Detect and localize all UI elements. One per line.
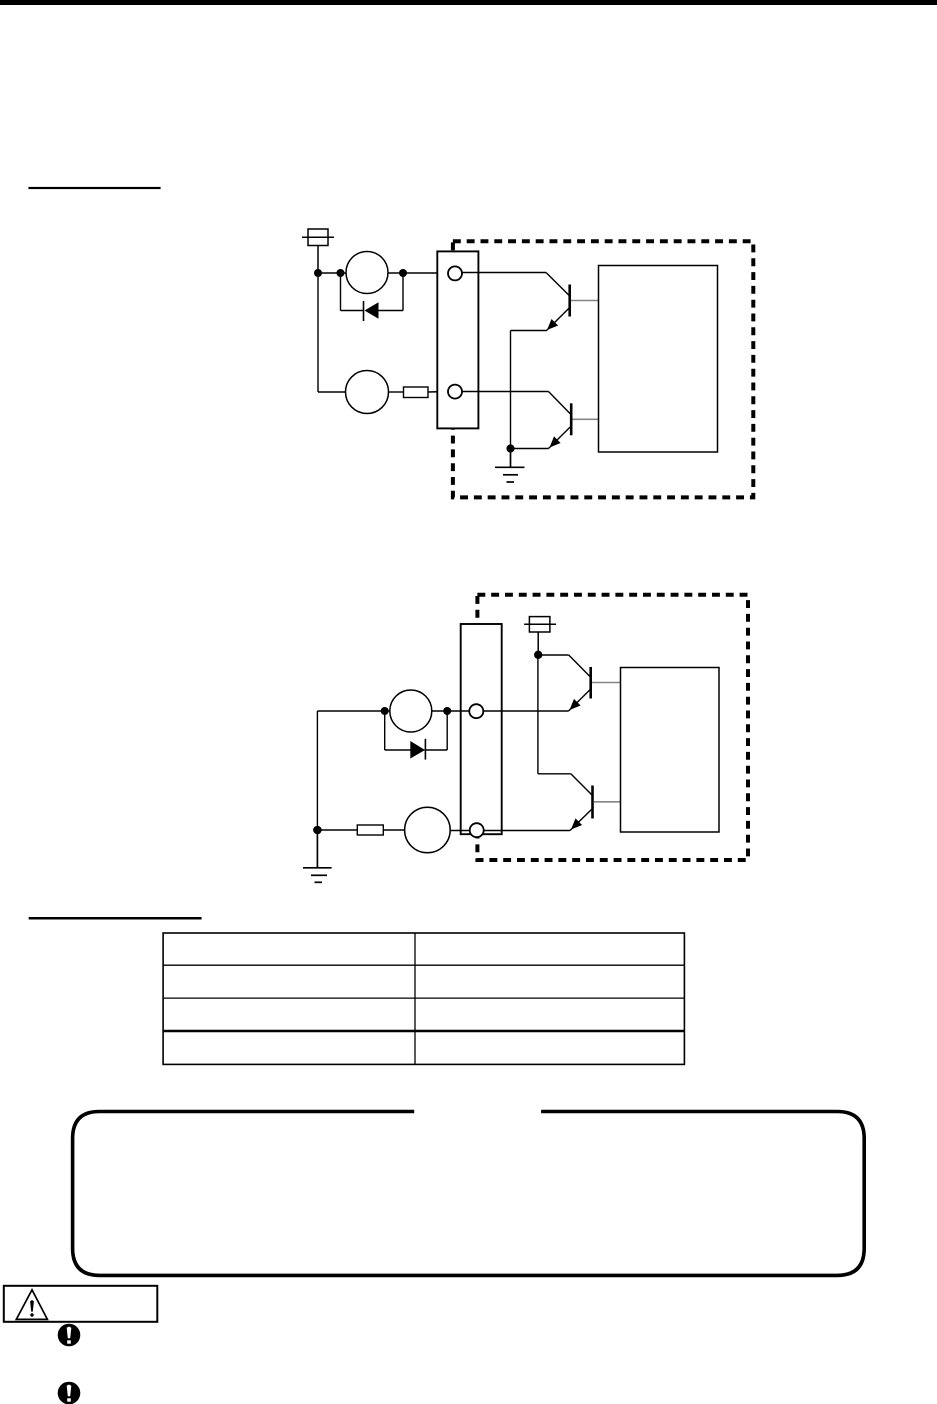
wire terminal1 to transistor Q1 bbox=[462, 272, 546, 274]
terminal block TB2 bbox=[461, 624, 502, 834]
node dot A3 bbox=[399, 269, 407, 277]
fuse F2 bbox=[524, 617, 556, 655]
heading underline 2 bbox=[29, 917, 202, 920]
heading underline 1 bbox=[28, 187, 160, 189]
transistor Q4 base bar bbox=[591, 786, 594, 819]
transistor Q2 base lead (grey) bbox=[572, 418, 598, 420]
transistor Q4 emitter arrow bbox=[571, 818, 582, 829]
terminal pin circle 2 bbox=[448, 385, 462, 399]
load L3 (circle) bbox=[390, 690, 432, 732]
wire to load L2 bbox=[318, 391, 346, 393]
transistor Q1 emitter arrow bbox=[547, 319, 558, 330]
wire load L3 to terminal bbox=[432, 710, 470, 712]
wire resistor R2 to load L4 bbox=[383, 829, 405, 831]
node dot ground junction bbox=[506, 444, 514, 452]
wire load L4 to terminal bbox=[450, 830, 470, 832]
internal circuit box 1 bbox=[599, 266, 718, 453]
transistor Q4 collector diagonal bbox=[571, 774, 593, 796]
node dot A1 bbox=[314, 269, 322, 277]
header bar bbox=[0, 0, 937, 5]
flyback diode D1 branch wires bbox=[341, 273, 404, 311]
node dot B1 bbox=[381, 707, 389, 715]
dashed boundary box 2 bbox=[477, 595, 748, 860]
transistor Q3 base bar bbox=[589, 667, 592, 699]
load L2 (circle) bbox=[346, 371, 389, 414]
transistor Q3 emitter arrow bbox=[570, 699, 581, 710]
diode D1 (points left) bbox=[364, 301, 379, 321]
wire load L2 to resistor bbox=[389, 391, 404, 393]
transistor Q3 collector diagonal bbox=[569, 655, 591, 677]
wire terminal4 emitter run bbox=[484, 830, 570, 832]
terminal pin circle 1 bbox=[448, 266, 462, 280]
transistor Q1 base lead (grey) bbox=[571, 300, 599, 302]
warning triangle bbox=[16, 1290, 47, 1320]
transistor Q1 collector diagonal bbox=[546, 273, 570, 297]
resistor R1 bbox=[404, 387, 429, 398]
node dot A2 bbox=[337, 269, 345, 277]
transistor Q4 emitter diagonal bbox=[570, 809, 593, 831]
load L1 (circle) bbox=[346, 252, 388, 294]
node dot B2 bbox=[443, 707, 451, 715]
ground symbol 1 bbox=[495, 449, 525, 483]
terminal pin circle 3 bbox=[469, 704, 483, 718]
transistor Q2 collector diagonal bbox=[549, 392, 572, 415]
transistor Q4 base lead (grey) bbox=[594, 801, 621, 803]
transistor Q2 emitter diagonal bbox=[549, 426, 572, 449]
common emitter vertical wire bbox=[510, 331, 512, 449]
wire Q2 emitter run bbox=[511, 448, 549, 450]
wire terminal2 to transistor Q2 bbox=[462, 391, 548, 393]
node dot fuse junction bbox=[534, 651, 542, 659]
transistor Q2 base bar bbox=[570, 403, 573, 435]
flyback diode D2 branch wires bbox=[385, 711, 448, 750]
transistor Q1 base bar bbox=[568, 285, 571, 317]
wire terminal3 emitter run bbox=[483, 710, 568, 712]
left rail vertical bbox=[316, 711, 318, 830]
transistor Q3 base lead (grey) bbox=[592, 682, 621, 684]
transistor Q4 collector run bbox=[538, 773, 571, 775]
wire dot to resistor R2 bbox=[317, 829, 357, 831]
ground symbol 2 bbox=[303, 830, 332, 882]
diode D2 (points right) bbox=[410, 739, 425, 760]
left drop wire bbox=[317, 273, 319, 392]
wire Q1 emitter run bbox=[511, 330, 547, 332]
terminal pin circle 4 bbox=[470, 823, 484, 837]
transistor Q1 emitter diagonal bbox=[546, 308, 570, 332]
wire left rail to load L3 bbox=[317, 710, 390, 712]
transistor Q3 emitter diagonal bbox=[569, 689, 591, 711]
caution header box bbox=[4, 1286, 158, 1322]
common collector vertical wire bbox=[537, 655, 539, 774]
dashed boundary box 1 bbox=[453, 241, 753, 497]
wire resistor to terminal bbox=[428, 391, 448, 394]
terminal block TB1 bbox=[437, 251, 478, 428]
transistor Q2 emitter arrow bbox=[550, 436, 561, 447]
transistor Q3 collector run bbox=[538, 654, 569, 656]
note callout rounded box bbox=[73, 1112, 865, 1276]
load L4 (circle) bbox=[405, 807, 451, 853]
resistor R2 bbox=[357, 825, 383, 835]
wire top rail y=273 bbox=[318, 272, 448, 274]
internal circuit box 2 bbox=[621, 668, 720, 833]
mandatory action bullet 1 bbox=[58, 1324, 81, 1347]
specification table bbox=[163, 933, 684, 1064]
node dot ground junction 2 bbox=[313, 826, 322, 835]
mandatory action bullet 2 bbox=[58, 1382, 81, 1404]
fuse F1 bbox=[302, 229, 334, 273]
